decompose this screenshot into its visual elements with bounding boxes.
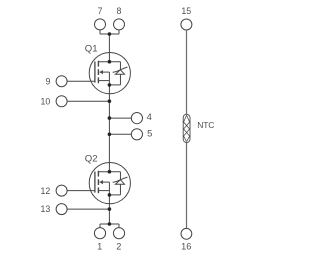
- svg-text:2: 2: [116, 242, 121, 252]
- svg-text:16: 16: [181, 242, 191, 252]
- svg-text:Q2: Q2: [85, 153, 98, 164]
- svg-text:12: 12: [41, 186, 51, 196]
- svg-text:NTC: NTC: [197, 120, 214, 130]
- svg-text:9: 9: [46, 76, 51, 86]
- svg-text:5: 5: [147, 127, 152, 138]
- svg-text:13: 13: [41, 204, 51, 214]
- svg-text:8: 8: [116, 6, 121, 16]
- svg-text:4: 4: [147, 111, 152, 122]
- svg-text:1: 1: [97, 242, 102, 252]
- svg-text:Q1: Q1: [85, 43, 98, 54]
- svg-text:15: 15: [181, 6, 191, 16]
- svg-text:7: 7: [98, 6, 103, 16]
- svg-text:10: 10: [41, 96, 51, 106]
